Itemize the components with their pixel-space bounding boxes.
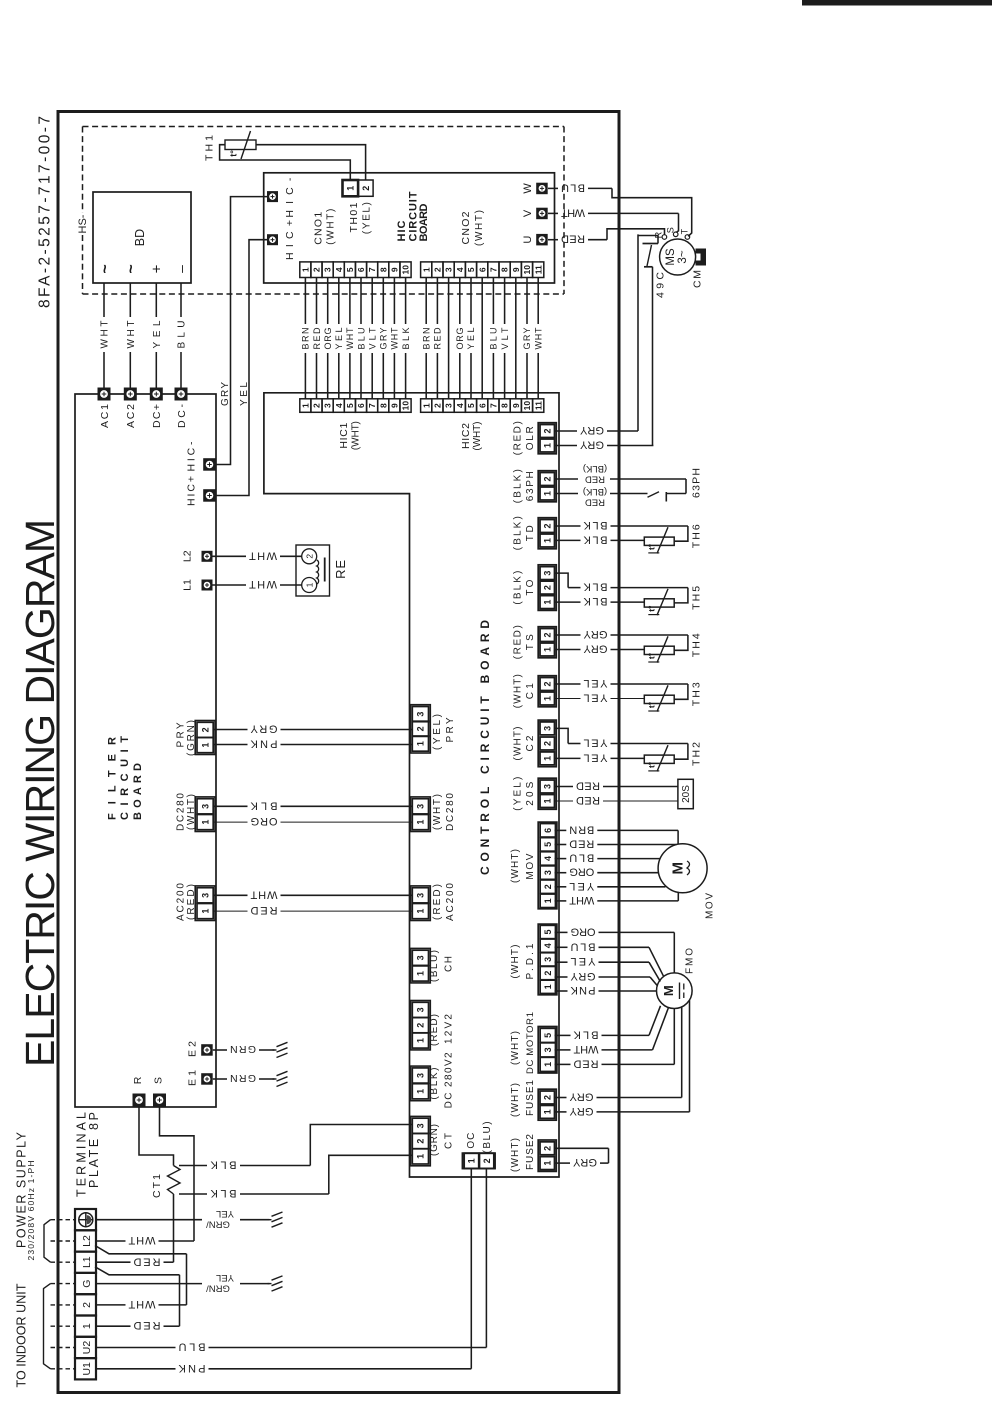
svg-text:FMO: FMO bbox=[684, 948, 695, 974]
svg-text:YEL: YEL bbox=[466, 328, 476, 350]
svg-text:1: 1 bbox=[81, 1323, 93, 1329]
svg-text:RED: RED bbox=[573, 1057, 598, 1069]
connector TH01 pin 2 bbox=[358, 180, 373, 196]
svg-text:t°: t° bbox=[646, 652, 656, 659]
svg-text:TH2: TH2 bbox=[690, 742, 702, 766]
wire CN02 pin 9 to HIC2 bbox=[515, 278, 517, 399]
wire WHT MOV pin1 bbox=[555, 900, 567, 902]
svg-text:CT1: CT1 bbox=[151, 1174, 163, 1198]
svg-text:~: ~ bbox=[123, 264, 140, 273]
svg-text:WHT: WHT bbox=[128, 1298, 155, 1310]
connector DC MOTOR1 (WHT) pins 5,3,1 bbox=[538, 1027, 557, 1073]
terminal AC1 (filter board) bbox=[98, 388, 111, 401]
svg-text:1: 1 bbox=[346, 186, 356, 191]
HIC circuit board outline bbox=[264, 173, 555, 283]
wire BLU U2 terminal to OC pin2 bbox=[96, 1347, 176, 1349]
svg-text:YEL: YEL bbox=[584, 677, 608, 689]
terminal plate L2 bbox=[75, 1230, 96, 1251]
wire BLK CT1 to CT pin1 bbox=[179, 1193, 207, 1195]
svg-text:(WHT): (WHT) bbox=[513, 727, 524, 761]
svg-text:YEL: YEL bbox=[239, 382, 250, 406]
connector PRY (YEL) on control board bbox=[411, 705, 431, 753]
svg-text:VLT: VLT bbox=[500, 327, 510, 350]
svg-text:5: 5 bbox=[543, 1033, 553, 1038]
svg-text:3~: 3~ bbox=[677, 250, 689, 263]
svg-text:U: U bbox=[522, 236, 534, 244]
svg-text:3: 3 bbox=[416, 893, 426, 898]
svg-text:2: 2 bbox=[81, 1302, 93, 1308]
svg-text:11: 11 bbox=[533, 265, 543, 274]
connector CN01 pins 1-10 bbox=[300, 262, 311, 278]
wire CN01 pin 10 to HIC1 (BLK) bbox=[405, 278, 407, 325]
wires TO pin3 jog bbox=[555, 573, 569, 588]
wire TH4 lower lead bbox=[555, 649, 581, 651]
svg-text:CM: CM bbox=[691, 270, 703, 288]
svg-text:10: 10 bbox=[401, 265, 411, 275]
svg-text:L1: L1 bbox=[81, 1256, 93, 1268]
svg-text:BLK: BLK bbox=[210, 1159, 237, 1171]
svg-text:FUSE1: FUSE1 bbox=[525, 1080, 536, 1116]
connector TD (BLK) bbox=[538, 518, 556, 549]
brace power supply bbox=[44, 1220, 51, 1263]
svg-text:4: 4 bbox=[455, 403, 465, 408]
svg-text:BLU: BLU bbox=[178, 1341, 205, 1353]
svg-text:+: + bbox=[149, 264, 166, 273]
svg-text:t°: t° bbox=[646, 761, 656, 768]
svg-text:ORG: ORG bbox=[323, 328, 333, 350]
svg-text:TO INDOOR UNIT: TO INDOOR UNIT bbox=[15, 1283, 29, 1387]
wire BLK DC280 bbox=[213, 805, 247, 807]
connector PRY (GRN) on filter board bbox=[195, 721, 215, 755]
svg-text:BLU: BLU bbox=[489, 328, 499, 350]
svg-text:(WHT): (WHT) bbox=[510, 945, 521, 979]
connector OLR (RED) bbox=[538, 423, 556, 454]
connector DC280 (WHT) on control board bbox=[411, 797, 431, 832]
svg-text:3: 3 bbox=[416, 1073, 426, 1078]
thermal protector 49C bbox=[638, 235, 658, 237]
CM terminal T bbox=[685, 235, 690, 240]
svg-text:9: 9 bbox=[390, 267, 400, 272]
svg-text:(WHT): (WHT) bbox=[510, 1138, 521, 1172]
svg-text:230/208V 60Hz 1-PH: 230/208V 60Hz 1-PH bbox=[26, 1161, 36, 1261]
svg-text:2: 2 bbox=[543, 428, 553, 433]
connector C2 (WHT) bbox=[538, 720, 556, 767]
svg-text:2: 2 bbox=[361, 186, 371, 191]
svg-text:GRY: GRY bbox=[220, 382, 231, 406]
svg-text:1: 1 bbox=[467, 1158, 477, 1163]
connector DC280 (WHT) on filter board bbox=[195, 797, 215, 832]
wire CN02 pin 8 to HIC2 (VLT) bbox=[504, 278, 506, 325]
svg-text:BRN: BRN bbox=[421, 328, 431, 350]
connector AC200 (RED) on filter board bbox=[195, 886, 215, 921]
svg-text:TH01: TH01 bbox=[348, 202, 360, 232]
svg-text:BLK: BLK bbox=[583, 519, 608, 531]
svg-text:7: 7 bbox=[367, 403, 377, 408]
svg-text:2: 2 bbox=[543, 884, 553, 889]
thermistor TH1 bbox=[225, 140, 256, 150]
compressor motor CM (MS 3~) bbox=[660, 239, 696, 275]
terminal DC+ (filter board) bbox=[150, 388, 163, 401]
svg-text:L2: L2 bbox=[81, 1235, 93, 1247]
svg-text:WHT: WHT bbox=[128, 1234, 155, 1246]
svg-text:(WHT): (WHT) bbox=[351, 421, 362, 450]
svg-text:8: 8 bbox=[378, 403, 388, 408]
svg-text:BLU: BLU bbox=[356, 328, 366, 350]
svg-text:HS-: HS- bbox=[77, 214, 89, 233]
svg-text:WHT: WHT bbox=[249, 578, 277, 590]
svg-text:(RED): (RED) bbox=[513, 421, 524, 455]
svg-text:WHT: WHT bbox=[345, 327, 355, 350]
svg-text:1: 1 bbox=[300, 267, 310, 272]
svg-text:WHT: WHT bbox=[249, 549, 277, 561]
motor MOV circle bbox=[658, 844, 707, 893]
svg-text:(RED): (RED) bbox=[186, 884, 197, 920]
terminal AC2 (filter board) bbox=[124, 388, 137, 401]
connector DC 280V2 (BLK) on control board bbox=[411, 1066, 431, 1101]
svg-text:BLK: BLK bbox=[573, 1028, 599, 1040]
wire GRY OLR pin1 to 49C bbox=[555, 445, 578, 447]
svg-text:YEL: YEL bbox=[216, 1272, 234, 1283]
svg-text:2: 2 bbox=[543, 523, 553, 528]
wire BLK CT1 to CT pin3 bbox=[179, 1165, 207, 1167]
svg-text:BLU: BLU bbox=[570, 940, 595, 952]
wire GRY P.D.1 pin2 to FMO bbox=[555, 976, 568, 978]
svg-text:1: 1 bbox=[543, 984, 553, 989]
svg-text:5: 5 bbox=[345, 403, 355, 408]
wire ORG DC280 bbox=[213, 821, 247, 823]
svg-text:L1: L1 bbox=[182, 579, 194, 591]
svg-text:RED: RED bbox=[576, 794, 600, 806]
svg-text:R: R bbox=[654, 231, 664, 238]
terminal HIC+ (HIC board) bbox=[267, 234, 278, 245]
svg-text:AC2: AC2 bbox=[125, 404, 137, 428]
svg-text:2: 2 bbox=[543, 1146, 553, 1151]
svg-text:1: 1 bbox=[543, 696, 553, 701]
wire WHT DC MOTOR1 pin3 to FMO bbox=[555, 1049, 571, 1051]
wire GRN E2 to ground bbox=[213, 1049, 227, 1051]
thermistor TH2 bbox=[644, 755, 674, 763]
svg-text:BLU: BLU bbox=[177, 321, 188, 349]
CM plug (black) bbox=[696, 249, 707, 266]
svg-text:(BLU): (BLU) bbox=[482, 1121, 493, 1153]
svg-text:GRY: GRY bbox=[579, 424, 604, 436]
wire WHT L1 to relay RE pin 1 bbox=[213, 584, 247, 586]
svg-text:PNK: PNK bbox=[178, 1362, 206, 1374]
svg-text:2: 2 bbox=[543, 476, 553, 481]
svg-text:(BLK): (BLK) bbox=[583, 463, 607, 474]
connector P.D.1 (WHT) pins 5-1 bbox=[538, 924, 557, 995]
svg-text:1: 1 bbox=[304, 582, 314, 587]
svg-text:3: 3 bbox=[543, 726, 553, 731]
ground (E1) bbox=[273, 1078, 277, 1080]
svg-text:CH: CH bbox=[443, 956, 454, 972]
wire YEL MOV pin2 bbox=[555, 886, 567, 888]
terminal S (filter board) bbox=[153, 1094, 166, 1107]
svg-text:–: – bbox=[173, 265, 189, 273]
svg-text:ORG: ORG bbox=[251, 815, 278, 827]
wire BD to filter board (BLU) bbox=[180, 283, 182, 317]
wire TH5 lower lead bbox=[555, 601, 581, 603]
svg-text:M: M bbox=[661, 985, 676, 996]
svg-text:MOV: MOV bbox=[705, 893, 716, 919]
svg-text:6: 6 bbox=[477, 403, 487, 408]
svg-text:7: 7 bbox=[489, 267, 499, 272]
svg-text:RED: RED bbox=[133, 1319, 160, 1331]
svg-text:PNK: PNK bbox=[250, 738, 278, 750]
svg-text:4: 4 bbox=[334, 403, 344, 408]
svg-text:RED: RED bbox=[312, 327, 322, 350]
svg-text:49C: 49C bbox=[654, 272, 666, 298]
svg-text:TH4: TH4 bbox=[690, 633, 702, 657]
svg-text:YEL: YEL bbox=[584, 692, 608, 704]
svg-text:(RED): (RED) bbox=[432, 884, 443, 920]
svg-text:8: 8 bbox=[378, 267, 388, 272]
svg-text:GRY: GRY bbox=[583, 628, 608, 640]
svg-text:DC+: DC+ bbox=[151, 404, 163, 428]
svg-text:5: 5 bbox=[466, 267, 476, 272]
svg-text:W: W bbox=[522, 183, 534, 194]
connector C1 (WHT) bbox=[538, 676, 556, 707]
terminal DC- (filter board) bbox=[175, 388, 188, 401]
fan motor FMO circle bbox=[657, 973, 693, 1009]
svg-text:ELECTRIC WIRING DIAGRAM: ELECTRIC WIRING DIAGRAM bbox=[17, 519, 63, 1067]
CM terminal R bbox=[662, 235, 667, 240]
wire TH1 lead to TH01 pin 1 bbox=[220, 145, 351, 180]
ground (PE) bbox=[268, 1219, 272, 1221]
svg-text:BLK: BLK bbox=[210, 1187, 237, 1199]
dash leads to terminal plate (power supply) bbox=[51, 1219, 75, 1221]
wire RED 20S pin3 bbox=[555, 786, 574, 788]
svg-text:RED: RED bbox=[569, 838, 594, 850]
svg-text:10: 10 bbox=[522, 265, 532, 275]
svg-text:3: 3 bbox=[444, 403, 454, 408]
svg-text:PLATE 8P: PLATE 8P bbox=[87, 1112, 101, 1188]
svg-text:20S: 20S bbox=[525, 781, 536, 805]
svg-text:RED: RED bbox=[585, 496, 605, 507]
thermistor TH6 bbox=[644, 537, 674, 545]
wire GRY FUSE1 pin2 to FMO bbox=[555, 1097, 567, 1099]
svg-text:1: 1 bbox=[543, 647, 553, 652]
wire L2 jumper to terminal 2 (WHT) bbox=[95, 1246, 187, 1254]
wire CN02 pin 7 to HIC2 (BLU) bbox=[492, 278, 494, 325]
svg-text:MOV: MOV bbox=[525, 853, 536, 879]
svg-text:3: 3 bbox=[444, 267, 454, 272]
svg-text:4: 4 bbox=[543, 943, 553, 948]
svg-text:PRY: PRY bbox=[445, 717, 456, 742]
wire BRN MOV pin6 bbox=[555, 829, 567, 831]
terminal plate screw PE (earth) bbox=[75, 1209, 96, 1230]
svg-text:BRN: BRN bbox=[569, 823, 594, 835]
svg-text:WHT: WHT bbox=[100, 321, 111, 349]
thermistor TH3 bbox=[644, 695, 674, 703]
svg-text:T: T bbox=[680, 228, 690, 234]
svg-text:RE: RE bbox=[333, 560, 348, 579]
wire BLK DC MOTOR1 pin5 to FMO bbox=[555, 1034, 571, 1036]
wire CN01 pin 6 to HIC1 (BLU) bbox=[360, 278, 362, 325]
svg-text:BOARD: BOARD bbox=[418, 203, 430, 241]
svg-text:8: 8 bbox=[500, 403, 510, 408]
terminal plate U1 bbox=[75, 1358, 96, 1379]
svg-text:3: 3 bbox=[543, 571, 553, 576]
wire GRN/YEL G terminal to ground bbox=[96, 1283, 202, 1285]
wire CN01 pin 5 to HIC1 (WHT) bbox=[349, 278, 351, 325]
svg-text:TD: TD bbox=[525, 525, 536, 541]
wire TH3 lower lead bbox=[555, 698, 581, 700]
wire CN02 pin 5 to HIC2 (YEL) bbox=[470, 278, 472, 325]
svg-text:3: 3 bbox=[416, 955, 426, 960]
wire CN02 pin 3 to HIC2 bbox=[448, 278, 450, 399]
svg-text:BLK: BLK bbox=[583, 595, 608, 607]
CM terminal S bbox=[673, 232, 678, 237]
svg-text:1: 1 bbox=[543, 443, 553, 448]
svg-text:(WHT): (WHT) bbox=[432, 794, 443, 830]
svg-text:2: 2 bbox=[543, 1095, 553, 1100]
wire OC pin2 riser bbox=[485, 1169, 487, 1348]
wire BLU MOV pin4 bbox=[555, 858, 567, 860]
svg-text:DC-: DC- bbox=[176, 404, 188, 429]
svg-text:L2: L2 bbox=[182, 550, 194, 562]
terminal V (HIC board) bbox=[536, 208, 548, 220]
svg-text:20S: 20S bbox=[681, 785, 692, 803]
svg-text:3: 3 bbox=[416, 712, 426, 717]
svg-text:2: 2 bbox=[312, 403, 322, 408]
wire BLU P.D.1 pin4 to FMO bbox=[555, 946, 568, 948]
svg-text:7: 7 bbox=[489, 403, 499, 408]
wire GRY filter HIC- to HIC board HIC- bbox=[216, 197, 267, 465]
wire GRY OLR pin2 to 49C bbox=[555, 430, 578, 432]
wire ORG P.D.1 pin5 to FMO bbox=[555, 931, 568, 933]
svg-text:(WHT): (WHT) bbox=[474, 210, 485, 246]
svg-text:2: 2 bbox=[543, 585, 553, 590]
svg-text:1: 1 bbox=[543, 1109, 553, 1114]
svg-text:TH5: TH5 bbox=[690, 586, 702, 610]
svg-text:WHT: WHT bbox=[533, 327, 543, 350]
svg-text:VLT: VLT bbox=[367, 327, 377, 350]
svg-text:5: 5 bbox=[543, 929, 553, 934]
svg-text:TH1: TH1 bbox=[203, 135, 215, 161]
svg-text:RED: RED bbox=[576, 780, 600, 792]
svg-text:WHT: WHT bbox=[561, 206, 585, 218]
svg-text:1: 1 bbox=[300, 403, 310, 408]
wire RED 63PH pin1 bbox=[555, 493, 579, 495]
svg-text:HIC: HIC bbox=[396, 220, 408, 241]
svg-text:9: 9 bbox=[511, 267, 521, 272]
svg-text:YEL: YEL bbox=[152, 320, 163, 348]
svg-text:WHT: WHT bbox=[390, 327, 400, 350]
terminal L1 (filter board) bbox=[202, 580, 213, 591]
svg-text:HIC2: HIC2 bbox=[460, 423, 472, 449]
svg-text:63PH: 63PH bbox=[690, 468, 702, 498]
svg-text:4: 4 bbox=[543, 856, 553, 861]
ground (G) bbox=[268, 1283, 272, 1285]
svg-text:5: 5 bbox=[543, 842, 553, 847]
svg-text:OC: OC bbox=[466, 1133, 477, 1149]
svg-text:ORG: ORG bbox=[571, 925, 596, 937]
svg-text:11: 11 bbox=[533, 401, 543, 410]
wire TH2 lower lead bbox=[555, 757, 581, 759]
svg-text:BLK: BLK bbox=[583, 533, 608, 545]
connector FUSE1 (WHT) bbox=[538, 1089, 556, 1120]
svg-text:WHT: WHT bbox=[250, 888, 277, 900]
svg-text:R: R bbox=[132, 1076, 144, 1084]
svg-text:1: 1 bbox=[543, 756, 553, 761]
connector CN02 pins 1-11 bbox=[421, 262, 432, 278]
wire CN01 pin 4 to HIC1 (YEL) bbox=[338, 278, 340, 325]
svg-text:2: 2 bbox=[312, 267, 322, 272]
terminal plate L1 bbox=[75, 1252, 96, 1273]
svg-text:3: 3 bbox=[323, 267, 333, 272]
svg-text:(RED): (RED) bbox=[429, 1014, 440, 1046]
svg-text:1: 1 bbox=[416, 1038, 426, 1043]
wire YEL P.D.1 pin3 to FMO bbox=[555, 961, 568, 963]
svg-text:1: 1 bbox=[421, 403, 431, 408]
svg-text:S: S bbox=[666, 227, 676, 233]
terminal plate 2 bbox=[75, 1294, 96, 1315]
svg-text:RED: RED bbox=[250, 904, 277, 916]
wire TH6 upper lead bbox=[555, 525, 581, 527]
svg-text:RED: RED bbox=[433, 327, 443, 350]
svg-text:GRY: GRY bbox=[579, 439, 604, 451]
svg-text:V: V bbox=[522, 209, 534, 217]
svg-text:2: 2 bbox=[416, 1023, 426, 1028]
svg-text:GRN: GRN bbox=[230, 1043, 256, 1055]
terminal HIC+ (filter board) bbox=[203, 489, 216, 502]
svg-text:1: 1 bbox=[421, 267, 431, 272]
svg-text:PRY: PRY bbox=[175, 722, 186, 747]
wire WHT L2 terminal to S bbox=[96, 1240, 126, 1242]
terminal plate U2 bbox=[75, 1337, 96, 1358]
svg-text:M: M bbox=[669, 862, 686, 875]
svg-text:MS: MS bbox=[665, 248, 677, 266]
svg-text:8: 8 bbox=[500, 267, 510, 272]
svg-text:3: 3 bbox=[416, 1123, 426, 1128]
svg-text:(BLK): (BLK) bbox=[583, 486, 607, 497]
wire CN02 pin 2 to HIC2 (RED) bbox=[436, 278, 438, 325]
connector 63PH (BLK) bbox=[538, 471, 556, 502]
svg-text:(WHT): (WHT) bbox=[186, 794, 197, 830]
terminal HIC- (HIC board) bbox=[267, 191, 278, 202]
wire GRN/YEL PE terminal to ground bbox=[96, 1219, 202, 1221]
solenoid valve 20S box bbox=[678, 779, 693, 808]
terminal E2 (filter board) bbox=[201, 1044, 213, 1056]
svg-text:YEL: YEL bbox=[584, 751, 608, 763]
dash leads to terminal plate (indoor unit) bbox=[51, 1283, 75, 1285]
svg-text:t°: t° bbox=[229, 150, 239, 157]
svg-text:G: G bbox=[81, 1280, 93, 1288]
pressure switch 63PH bbox=[685, 479, 687, 494]
svg-text:1: 1 bbox=[543, 798, 553, 803]
control circuit board outline bbox=[264, 393, 559, 1177]
wire L1 jumper to terminal 1 (RED) bbox=[95, 1267, 180, 1275]
wire WHT L2 to relay RE pin 2 bbox=[213, 555, 247, 557]
svg-text:TH6: TH6 bbox=[690, 524, 702, 548]
svg-text:GRY: GRY bbox=[570, 970, 596, 982]
svg-text:TH3: TH3 bbox=[690, 682, 702, 706]
thermistor TH4 bbox=[644, 646, 674, 654]
svg-text:63PH: 63PH bbox=[525, 471, 536, 501]
svg-text:AC200: AC200 bbox=[175, 883, 186, 921]
svg-text:1: 1 bbox=[543, 1161, 553, 1166]
svg-text:BLK: BLK bbox=[250, 799, 278, 811]
svg-text:3: 3 bbox=[416, 1007, 426, 1012]
svg-text:1: 1 bbox=[416, 909, 426, 914]
wire RED 20S pin1 bbox=[555, 800, 574, 802]
connector TH01 pin 1 bbox=[343, 180, 359, 196]
wire S to L2 riser bbox=[160, 1107, 195, 1242]
wire PNK P.D.1 pin1 to FMO bbox=[555, 990, 568, 992]
terminal plate 1 bbox=[75, 1316, 96, 1337]
svg-text:DC MOTOR1: DC MOTOR1 bbox=[525, 1012, 536, 1074]
